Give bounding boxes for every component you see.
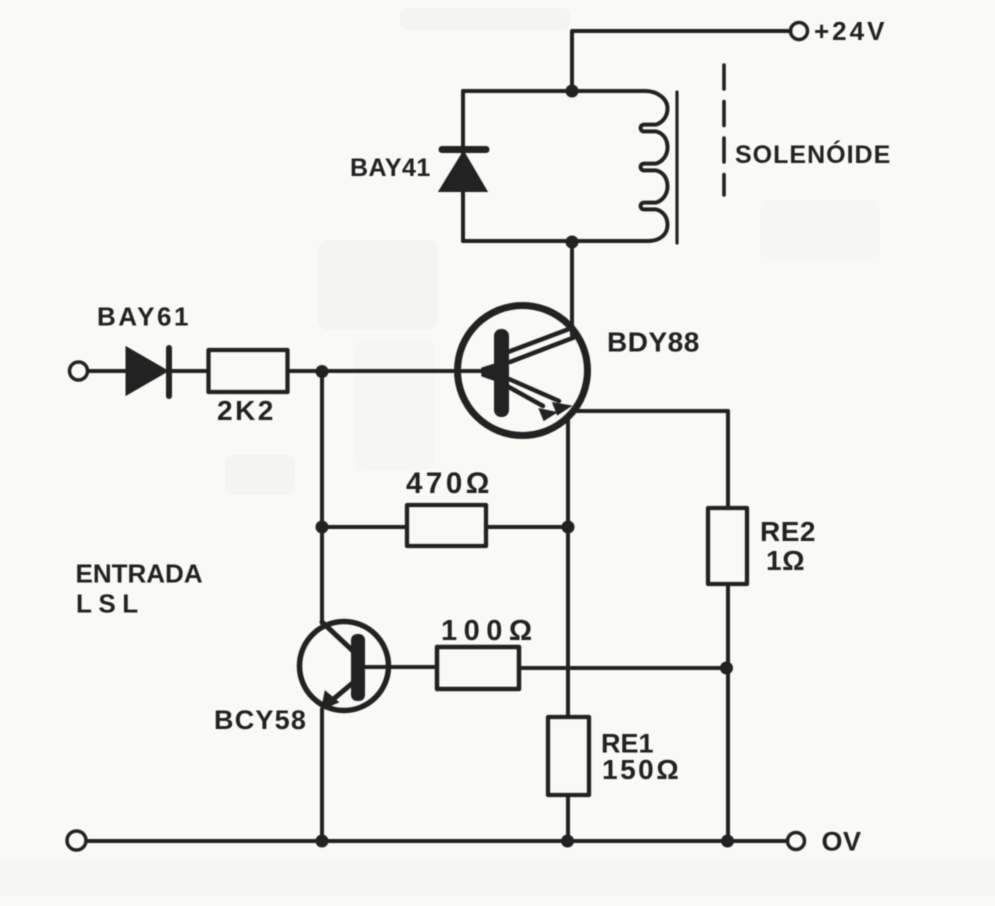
terminal 0V left — [67, 831, 86, 850]
solenoid coil L1 — [641, 91, 668, 241]
svg-text:470Ω: 470Ω — [406, 467, 493, 500]
wire base node down to 470 node — [320, 372, 324, 623]
transistor BDY88 — [458, 306, 588, 436]
node bottom of solenoid — [566, 236, 579, 249]
terminal 0V right — [788, 833, 805, 850]
resistor 100 body — [437, 647, 519, 689]
wire RE2 bottom to 0V rail — [726, 586, 730, 841]
svg-text:1Ω: 1Ω — [766, 545, 805, 576]
wire 2K2 to base node and transistor base — [288, 369, 496, 373]
wire top node right to solenoid coil — [572, 89, 645, 93]
svg-text:150Ω: 150Ω — [602, 754, 681, 785]
node rail BCY58 — [316, 835, 329, 848]
svg-text:BCY58: BCY58 — [214, 705, 307, 735]
labels — [814, 16, 887, 46]
svg-text:SOLENÓIDE: SOLENÓIDE — [735, 139, 891, 169]
transistor BCY58 — [300, 622, 389, 711]
wire BCY58 emitter down to 0V rail — [320, 709, 324, 841]
resistor RE2 body — [708, 508, 747, 584]
node top (+24V/solenoid/diode) — [566, 85, 579, 98]
wire 470 right — [488, 525, 568, 529]
resistor 2K2 body — [209, 350, 288, 392]
svg-text:100Ω: 100Ω — [441, 615, 539, 647]
wire RE1 bottom to rail — [566, 797, 570, 841]
wire emitter to RE2 — [576, 411, 728, 506]
wire input to diode — [88, 369, 127, 373]
diode BAY41 — [441, 150, 487, 191]
node rail RE2 — [721, 835, 734, 848]
wire 470 left — [322, 525, 406, 529]
resistor RE1 body — [548, 717, 589, 795]
node rail RE1 — [561, 835, 574, 848]
node 470 right — [562, 521, 575, 534]
wire diode to 2K2 — [171, 369, 208, 373]
svg-text:BDY88: BDY88 — [607, 327, 700, 358]
wire BCY58 base to 100 ohm — [365, 665, 437, 669]
node 100ohm / RE2 — [720, 662, 733, 675]
node 470 left — [316, 521, 329, 534]
svg-text:RE2: RE2 — [760, 516, 816, 547]
wire bottom of parallel pair — [463, 239, 650, 243]
solenoid boundary dashed line — [722, 65, 726, 195]
node base (2K2 / 470) — [316, 365, 329, 378]
svg-text:BAY61: BAY61 — [97, 302, 191, 332]
wire emitter node vertical down to RE1 — [566, 421, 570, 716]
terminal +24V — [791, 23, 808, 40]
diode BAY61 — [127, 348, 169, 396]
input terminal ENTRADA — [70, 362, 88, 380]
svg-text:ENTRADA: ENTRADA — [76, 559, 203, 589]
0V rail wire — [88, 839, 788, 843]
wire +24V to top node — [572, 31, 791, 91]
svg-text:LSL: LSL — [76, 589, 145, 619]
svg-text:OV: OV — [822, 827, 862, 857]
wire BAY41 branch vertical — [461, 91, 465, 241]
wire top node left to diode branch corner — [463, 89, 572, 93]
svg-text:BAY41: BAY41 — [350, 154, 431, 182]
solenoid core bar — [675, 92, 678, 243]
wire bottom node to collector — [570, 241, 574, 335]
svg-text:+24V: +24V — [814, 16, 887, 46]
svg-text:2K2: 2K2 — [217, 395, 276, 426]
wire 100 ohm to RE2 node — [519, 666, 726, 670]
resistor 470 body — [407, 505, 486, 546]
